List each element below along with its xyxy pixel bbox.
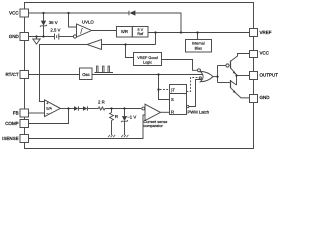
svg-text:PWM Latch: PWM Latch bbox=[188, 110, 210, 115]
node: R divider tap bbox=[110, 107, 112, 109]
wire: gate output to totem pole bases bbox=[213, 76, 218, 78]
svg-text:VCC: VCC bbox=[260, 50, 270, 55]
zener diode 1 V clamp bbox=[124, 109, 126, 117]
node: zener clamp tap bbox=[123, 107, 125, 109]
wire: VREF rail branch down to buffer rail bbox=[155, 33, 157, 45]
resistor R to ground bbox=[111, 109, 113, 113]
wire: ISENSE to comparator lower input bbox=[29, 115, 146, 139]
wire: divider rail to comparator bbox=[105, 108, 141, 110]
svg-text:S: S bbox=[171, 97, 174, 102]
block 5 V Ref bbox=[132, 27, 148, 38]
bubble on UVLO lower input bbox=[73, 35, 76, 38]
node: ground tap on GND wire bbox=[35, 35, 37, 37]
wire: outer border top rail bbox=[25, 3, 254, 29]
svg-text:Bias: Bias bbox=[195, 46, 202, 50]
block Vref Good Logic bbox=[134, 53, 162, 66]
wire: VCC rail after diode, corner down to VREF rail bbox=[135, 13, 181, 33]
node: gate output bbox=[216, 76, 218, 78]
wire: clock line from Osc to OR gate bbox=[92, 74, 203, 76]
pin VCC (left) bbox=[20, 9, 29, 17]
node: clock drop tap bbox=[157, 73, 159, 75]
bubble on OR gate top input bbox=[198, 69, 201, 72]
pin RT/CT bbox=[20, 71, 29, 79]
pin GND (left) bbox=[20, 33, 29, 41]
svg-text:RT/CT: RT/CT bbox=[6, 72, 19, 77]
wire: EA output bbox=[60, 108, 74, 110]
wire: left border segment COMP to ISENSE bbox=[24, 128, 26, 135]
svg-text:R: R bbox=[171, 110, 174, 115]
op-amp buffer (2.5 V reference, points left) bbox=[87, 40, 102, 50]
resistor 2R bbox=[98, 107, 105, 110]
node: zener tap on VCC rail bbox=[42, 12, 44, 14]
node: COMP tap on EA output bbox=[67, 107, 69, 109]
svg-text:Internal: Internal bbox=[192, 42, 205, 46]
node: dashed T tap bbox=[157, 88, 159, 90]
block Internal Bias bbox=[186, 40, 212, 53]
diode D3 bbox=[83, 106, 87, 110]
wire: right border segment VCC to OUTPUT bbox=[253, 58, 255, 72]
svg-text:GND: GND bbox=[9, 34, 20, 39]
svg-text:FB: FB bbox=[13, 111, 19, 116]
battery 2.5 V bbox=[54, 34, 56, 40]
diode D2 bbox=[74, 106, 78, 110]
svg-text:V​REF Good: V​REF Good bbox=[137, 56, 157, 60]
svg-text:VCC: VCC bbox=[9, 10, 19, 15]
bubble on OR gate dashed input bbox=[199, 77, 201, 79]
svg-text:~1 V: ~1 V bbox=[127, 115, 136, 120]
svg-text:+: + bbox=[46, 101, 49, 106]
transistor Q1 (top of totem pole) bbox=[230, 61, 232, 69]
pin OUTPUT (right) bbox=[250, 72, 258, 80]
wire: VREF rail branch down to Internal Bias bbox=[197, 33, 199, 40]
pin GND (right) bbox=[250, 95, 258, 103]
pin COMP bbox=[20, 120, 29, 128]
wire: latch output to OR gate bottom input bbox=[189, 80, 203, 107]
node: bias tap on VREF rail bbox=[196, 31, 198, 33]
svg-text:GND: GND bbox=[260, 95, 271, 100]
wire: COMP to EA output bbox=[29, 109, 69, 124]
ground symbol near GND pin bbox=[36, 37, 38, 40]
node: output emitter junction bbox=[235, 74, 237, 76]
svg-text:Osc: Osc bbox=[82, 72, 89, 77]
diode D1 on VCC rail (cathode left) bbox=[129, 10, 135, 15]
pin VCC (right) bbox=[250, 51, 258, 58]
svg-text:2.5 V: 2.5 V bbox=[50, 28, 60, 33]
wire: comparator output to latch R input bbox=[161, 111, 170, 113]
node: Vref good tap on buffer rail bbox=[124, 43, 126, 45]
svg-text:VREF: VREF bbox=[260, 30, 272, 35]
wire: GND pin to battery bbox=[29, 36, 55, 38]
node: zener bottom on GND wire bbox=[42, 35, 44, 37]
op-amp current sense comparator bbox=[145, 104, 161, 120]
wire: left border segment FB to COMP bbox=[24, 117, 26, 120]
wire: FB to EA inverting input bbox=[29, 112, 45, 114]
wire: dashed latch T output to OR gate bbox=[187, 78, 200, 92]
wire: output node bbox=[237, 75, 250, 77]
svg-text:2 R: 2 R bbox=[98, 100, 105, 105]
svg-text:comparator: comparator bbox=[144, 124, 164, 128]
pin ISENSE bbox=[20, 135, 29, 143]
wire: right border segment OUTPUT to GND bbox=[253, 80, 255, 95]
op-amp UVLO comparator bbox=[77, 24, 92, 37]
wire: buffer output to EA plus input bbox=[40, 45, 88, 102]
svg-text:−: − bbox=[46, 111, 49, 116]
wire: dashed clock to latch T input bbox=[160, 89, 170, 91]
svg-text:36 V: 36 V bbox=[49, 20, 58, 25]
wire: VREF rail from Ref block to VREF pin bbox=[148, 32, 250, 34]
wire: battery to UVLO inverting input bbox=[59, 36, 74, 38]
wire: right border GND to bottom rail and bottom rail bbox=[25, 103, 254, 149]
block S/R bbox=[117, 27, 133, 38]
wire: left border segment VCC to GND bbox=[24, 17, 26, 33]
block Osc bbox=[80, 68, 93, 80]
zener diode 36 V bbox=[41, 21, 46, 26]
wire: zener branch from VCC rail bbox=[43, 13, 45, 21]
pin VREF (right) bbox=[250, 29, 258, 37]
svg-text:ISENSE: ISENSE bbox=[2, 136, 19, 141]
wire: buffer input rail from VREF branch bbox=[102, 44, 156, 46]
node: UVLO tap on VCC rail bbox=[67, 12, 69, 14]
ground (hatched) under zener bbox=[121, 135, 128, 137]
svg-text:OUTPUT: OUTPUT bbox=[260, 73, 279, 78]
svg-text:Logic: Logic bbox=[143, 61, 152, 65]
svg-text:UVLO: UVLO bbox=[82, 20, 94, 25]
gate OR (output logic) bbox=[200, 71, 213, 81]
wire: VCC rail to UVLO plus input bbox=[69, 13, 77, 27]
wire: right border segment VREF to VCC bbox=[253, 37, 255, 51]
bubble on PWM latch output bbox=[187, 105, 189, 107]
wire: left border segment RT/CT to FB bbox=[24, 79, 26, 110]
transistor Q2 (bottom of totem pole) bbox=[218, 82, 230, 84]
svg-text:COMP: COMP bbox=[5, 121, 19, 126]
bubble on top transistor base bbox=[226, 64, 229, 67]
wire: RT/CT to oscillator bbox=[29, 74, 80, 76]
wire: branch to Vref Good Logic bbox=[126, 45, 134, 58]
op-amp EA error amplifier bbox=[45, 100, 61, 117]
pin FB bbox=[20, 109, 29, 117]
block PWM Latch bbox=[170, 85, 187, 115]
bubble on current sense comparator input bbox=[142, 107, 145, 110]
wire: clock drop to latch S input bbox=[159, 75, 170, 100]
wire: left border segment GND to RT/CT bbox=[24, 41, 26, 71]
clock waveform pulses bbox=[95, 72, 114, 74]
svg-text:)T: )T bbox=[171, 88, 175, 93]
svg-text:R: R bbox=[115, 114, 118, 119]
ground (hatched) under R bbox=[108, 135, 115, 137]
wire: top base bbox=[218, 65, 226, 67]
node: VCC diode join on VREF rail bbox=[180, 31, 182, 33]
svg-text:S/R: S/R bbox=[121, 29, 128, 34]
wire: logic output to OR gate top input bbox=[162, 60, 198, 71]
wire: UVLO output to S/R bbox=[92, 30, 117, 32]
node: buffer tap on VREF rail bbox=[154, 31, 156, 33]
wire: VCC internal rail bbox=[29, 12, 130, 14]
svg-text:Ref: Ref bbox=[137, 32, 144, 36]
